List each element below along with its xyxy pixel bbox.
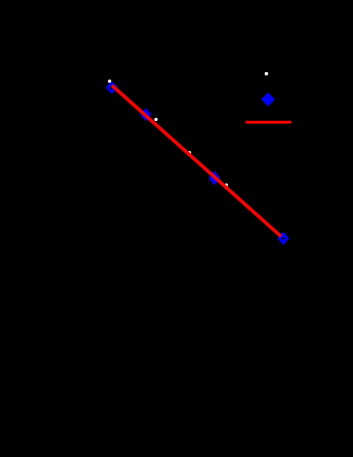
- red fit line: [112, 85, 281, 236]
- white data dots: [108, 80, 111, 83]
- legend: [265, 72, 269, 76]
- blue diamonds: [107, 83, 287, 243]
- dark centers: [110, 86, 113, 90]
